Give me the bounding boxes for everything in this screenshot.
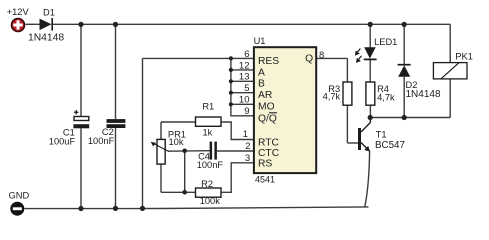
- wire R2 row: [161, 191, 196, 193]
- svg-text:RS: RS: [258, 159, 272, 170]
- transistor T1 BC547: [358, 118, 405, 152]
- svg-text:1N4148: 1N4148: [406, 89, 441, 100]
- junction top rail / C2: [113, 22, 118, 27]
- wire pin8 to R3: [317, 57, 347, 59]
- svg-text:D1: D1: [43, 8, 55, 18]
- svg-text:4541: 4541: [255, 175, 275, 185]
- svg-text:BC547: BC547: [375, 140, 405, 151]
- svg-text:5: 5: [244, 83, 249, 94]
- junction bottom rail / C2: [113, 206, 118, 211]
- svg-text:AR: AR: [258, 90, 272, 101]
- wire pin12 stub: [231, 69, 253, 71]
- wire D2 branch top: [403, 24, 405, 64]
- wire wiper row to C4: [168, 150, 210, 153]
- svg-text:100nF: 100nF: [88, 136, 115, 146]
- wire C4 to pin2: [217, 150, 253, 152]
- svg-text:R1: R1: [202, 102, 214, 112]
- junction wiper node: [182, 149, 187, 154]
- svg-text:B: B: [258, 79, 265, 90]
- svg-text:13: 13: [239, 72, 250, 83]
- wire R4 bottom: [369, 105, 371, 117]
- svg-text:LED1: LED1: [374, 37, 397, 47]
- wire D2 branch bottom: [403, 77, 405, 118]
- capacitor C4: [197, 142, 224, 170]
- GND terminal: [9, 190, 30, 215]
- potentiometer PR1: [151, 130, 186, 165]
- svg-text:100nF: 100nF: [197, 160, 224, 170]
- capacitor C1: [49, 110, 89, 146]
- svg-text:+12V: +12V: [7, 7, 30, 17]
- svg-text:R2: R2: [201, 179, 213, 189]
- junction bus pin 12: [229, 68, 233, 72]
- svg-text:1k: 1k: [202, 127, 212, 137]
- wire right drop to relay: [449, 24, 451, 62]
- svg-text:10: 10: [239, 95, 250, 106]
- wire ground bus vertical: [142, 58, 144, 208]
- junction bus pin 10: [229, 102, 233, 106]
- wire R2 to pin3 jog: [221, 163, 253, 193]
- junction top rail / C1: [78, 22, 83, 27]
- svg-text:3: 3: [245, 153, 250, 164]
- junction collector node: [368, 115, 373, 120]
- wire C2 branch: [115, 24, 117, 119]
- svg-text:6: 6: [244, 49, 249, 60]
- LED LED1: [355, 37, 398, 63]
- svg-text:4,7k: 4,7k: [377, 93, 395, 103]
- wire R3 bottom to base: [346, 105, 348, 143]
- wire top rail: [26, 23, 41, 25]
- resistor R3: [323, 82, 352, 105]
- junction wiper / R2 row: [182, 190, 187, 195]
- junction bus pin 6: [229, 56, 233, 60]
- svg-text:PK1: PK1: [455, 52, 473, 62]
- svg-text:100uF: 100uF: [49, 136, 76, 146]
- wire pin bus: [231, 58, 253, 115]
- wire pot rail bottom: [160, 164, 162, 192]
- +12V terminal: [7, 7, 30, 32]
- wire emitter down: [365, 151, 370, 207]
- wire relay bottom drop: [449, 79, 451, 118]
- wire C1 branch: [80, 24, 82, 116]
- wire pin13 stub: [231, 80, 253, 82]
- capacitor C2: [88, 119, 126, 146]
- svg-text:1N4148: 1N4148: [28, 33, 64, 44]
- resistor R2: [196, 179, 222, 206]
- svg-text:RES: RES: [258, 56, 279, 67]
- junction top rail / LED1 branch: [368, 22, 373, 27]
- svg-text:9: 9: [244, 106, 249, 117]
- svg-text:4,7k: 4,7k: [323, 92, 341, 102]
- svg-text:10k: 10k: [169, 137, 184, 147]
- svg-text:12: 12: [239, 60, 250, 71]
- wire collector-relay row: [370, 117, 450, 119]
- svg-text:100k: 100k: [200, 196, 221, 206]
- wire pot rail top: [160, 122, 162, 139]
- junction bus pin 5: [229, 91, 233, 95]
- junction top rail / D2 branch: [402, 22, 407, 27]
- svg-text:CTC: CTC: [258, 148, 280, 159]
- wire pin10 stub: [231, 103, 253, 105]
- wire R1 row: [161, 121, 196, 123]
- wire wiper down link: [184, 151, 186, 192]
- junction bottom rail / ground bus: [140, 206, 145, 211]
- junction bus pin 13: [229, 79, 233, 83]
- wire LED branch: [369, 24, 371, 47]
- svg-text:8: 8: [319, 50, 324, 61]
- resistor R1: [196, 102, 222, 138]
- svg-text:Q: Q: [305, 54, 313, 65]
- wire pin5 stub: [231, 92, 253, 94]
- svg-text:1: 1: [243, 129, 248, 140]
- junction bottom rail / C1: [78, 206, 83, 211]
- svg-text:A: A: [258, 68, 265, 79]
- wire pin6 row: [143, 57, 254, 59]
- svg-text:MO: MO: [258, 102, 275, 113]
- svg-text:GND: GND: [9, 190, 30, 200]
- relay PK1: [433, 52, 472, 79]
- svg-text:U1: U1: [254, 36, 266, 46]
- diode D1: [28, 8, 64, 44]
- diode D2: [398, 65, 441, 100]
- svg-text:Q/Q: Q/Q: [258, 113, 277, 124]
- IC U1 4541: [239, 36, 324, 185]
- wire R1 to pin1 jog: [221, 122, 253, 140]
- wire bottom rail: [25, 207, 369, 209]
- svg-text:2: 2: [245, 141, 250, 152]
- svg-text:T1: T1: [376, 130, 387, 140]
- junction D2 / relay row: [402, 115, 407, 120]
- svg-text:RTC: RTC: [258, 138, 280, 149]
- resistor R4: [366, 82, 395, 105]
